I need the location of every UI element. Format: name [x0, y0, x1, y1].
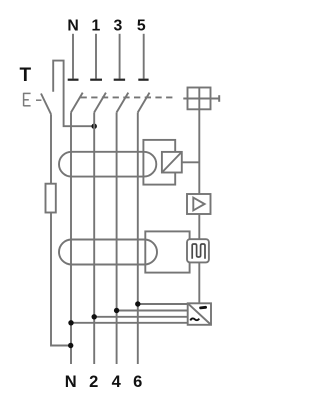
svg-text:6: 6 — [133, 373, 142, 391]
switch blade pole 2 — [117, 93, 129, 113]
switch blade pole 3 — [138, 93, 150, 113]
push button actuator symbol — [24, 93, 42, 106]
wire: resistor to N conductor — [51, 213, 71, 346]
amplifier box — [187, 194, 211, 214]
switch blade pole N — [71, 93, 83, 113]
svg-text:T: T — [19, 65, 31, 86]
junction dot line 4 — [114, 308, 119, 313]
wire: tap 6 to rectifier — [138, 303, 188, 305]
wire: amplifier to trip coil — [198, 214, 200, 239]
conductor N — [70, 112, 72, 364]
svg-text:N: N — [67, 18, 78, 35]
wire: terminal 3 incoming — [119, 34, 121, 79]
fixed contact tick 3 — [114, 79, 125, 81]
junction dot line 6 — [135, 301, 140, 306]
amplifier triangle — [193, 198, 204, 211]
wire: tap 4 to rectifier — [117, 310, 188, 312]
rectifier DC bar — [199, 306, 207, 310]
wire: terminal N incoming — [72, 34, 74, 79]
conductor 6 — [137, 112, 139, 364]
secondary winding frame 2 — [145, 231, 189, 272]
converter diagonal — [162, 152, 182, 173]
rectifier diagonal — [188, 304, 211, 325]
test switch blade — [41, 94, 51, 115]
wire: tap 2 to rectifier — [94, 316, 188, 318]
svg-text:5: 5 — [137, 18, 146, 35]
trip box through line — [183, 98, 219, 100]
svg-text:4: 4 — [112, 373, 122, 391]
rectifier AC wave — [190, 318, 199, 320]
trip box end tick — [218, 95, 220, 102]
svg-text:N: N — [65, 373, 77, 391]
junction dot on N conductor — [68, 343, 73, 348]
trip mechanism box — [188, 88, 211, 110]
fixed contact tick 5 — [138, 79, 148, 81]
junction dot on line 1 — [92, 124, 97, 129]
svg-text:1: 1 — [92, 18, 101, 35]
junction dot line 2 — [92, 314, 97, 319]
CT core 1 (toroid) — [59, 152, 156, 177]
secondary winding frame 1 — [143, 140, 175, 185]
switch blade pole 1 — [94, 93, 106, 113]
wire: terminal 5 incoming — [143, 34, 145, 79]
svg-text:3: 3 — [114, 18, 123, 35]
wire: converter output — [182, 161, 200, 163]
CT core 2 (toroid) — [59, 240, 157, 265]
wire: terminal 1 incoming — [95, 34, 97, 79]
wire: tap N to rectifier — [71, 322, 188, 324]
test switch fixed terminal wire (hook to phase 1) — [53, 61, 94, 127]
trip coil winding — [192, 244, 205, 259]
fixed contact tick N — [68, 79, 79, 81]
conductor 2 — [93, 112, 95, 364]
converter square U1 — [162, 152, 182, 173]
wire: test blade down to resistor — [50, 114, 52, 184]
mechanical linkage (dashed) — [81, 96, 176, 98]
wire: trip coil to rectifier — [198, 262, 200, 303]
conductor 4 — [116, 112, 118, 364]
wire: trip box to amplifier — [198, 109, 200, 194]
fixed contact tick 1 — [90, 79, 102, 81]
rectifier box — [188, 303, 211, 325]
resistor R (test) — [46, 184, 56, 213]
trip box cross vertical — [198, 88, 200, 110]
svg-text:2: 2 — [89, 373, 98, 391]
junction dot line N — [68, 320, 73, 325]
trip coil box — [187, 239, 209, 262]
